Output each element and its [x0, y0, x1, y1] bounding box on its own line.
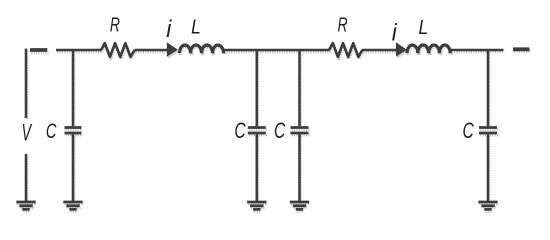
wire: right dashed continuation [513, 47, 530, 51]
capacitor C4 branch wires [487, 50, 490, 201]
svg-text:L: L [418, 17, 428, 40]
svg-text:C: C [234, 119, 245, 143]
capacitor C1 branch wires [72, 50, 75, 201]
ground (V branch) [16, 202, 35, 209]
capacitor C4 plates [479, 128, 497, 134]
svg-text:C: C [46, 118, 57, 143]
wire top bus segments [56, 49, 504, 52]
resistor R2 [329, 43, 362, 57]
svg-text:C: C [462, 120, 473, 144]
capacitor C2 plates [248, 128, 266, 134]
wire: left dashed continuation [30, 48, 47, 52]
capacitor C3 branch wires [298, 50, 301, 201]
source V branch: upper wire [25, 49, 28, 118]
svg-text:i: i [166, 16, 172, 43]
wire: bus seg 4 [362, 49, 399, 52]
svg-text:L: L [191, 16, 201, 39]
inductor L1 [180, 45, 224, 53]
svg-text:R: R [338, 13, 348, 36]
ground (C2 branch) [247, 202, 266, 209]
svg-text:R: R [110, 13, 120, 36]
ground (C3 branch) [290, 202, 309, 209]
capacitor C1 plates [65, 128, 82, 134]
ground (C1 branch) [63, 202, 82, 209]
wire: bus seg 2 [135, 49, 170, 52]
svg-text:V: V [21, 120, 32, 147]
capacitor C2 branch wires [255, 50, 258, 201]
wire: bus seg 5 [451, 49, 504, 52]
inductor L2 [407, 45, 450, 53]
wire: bus seg 1 [56, 49, 102, 52]
ground (C4 branch) [478, 202, 497, 209]
source V branch: lower wire [25, 154, 28, 202]
current arrow i1 [167, 42, 178, 56]
wire: bus seg 3 [223, 49, 330, 52]
current arrow i2 [396, 42, 407, 56]
svg-text:C: C [274, 119, 285, 143]
capacitor C3 plates [291, 128, 309, 134]
svg-text:i: i [392, 19, 398, 46]
resistor R1 [101, 43, 135, 57]
